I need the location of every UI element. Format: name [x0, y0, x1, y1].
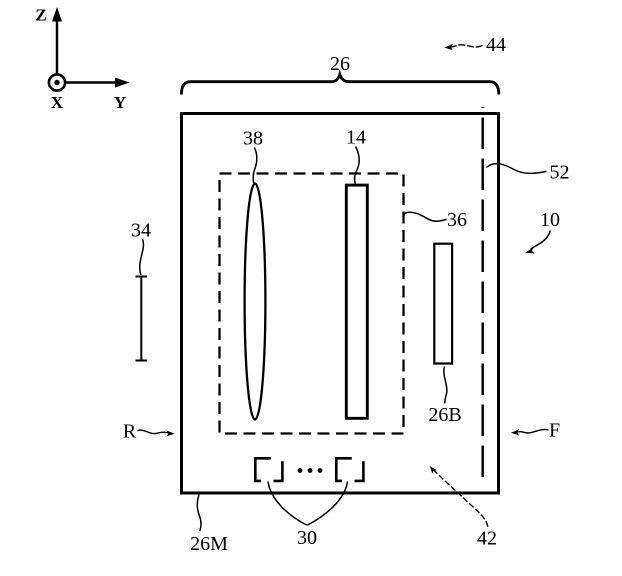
leader 30 (two branches)	[268, 482, 348, 526]
port bracket 30 (right)	[336, 458, 363, 481]
port bracket 30 (left)	[255, 458, 282, 481]
svg-text:42: 42	[477, 528, 497, 550]
svg-text:10: 10	[540, 209, 560, 231]
svg-text:26: 26	[330, 53, 350, 75]
leader 36	[403, 212, 447, 221]
axis Z arrow	[52, 7, 62, 74]
dashed region 36	[220, 174, 404, 434]
svg-text:36: 36	[447, 209, 467, 231]
component rectangle 26B	[434, 244, 452, 364]
svg-text:R: R	[123, 421, 137, 443]
dashed line 52 (display cover layer edge)	[481, 107, 484, 477]
leader 52	[487, 164, 547, 174]
svg-text:26B: 26B	[428, 404, 461, 426]
leader 26B	[444, 367, 447, 404]
leader arrow R	[138, 430, 175, 436]
leader arrow 42	[430, 466, 488, 528]
leader arrow 10	[525, 231, 550, 254]
svg-text:Y: Y	[114, 93, 126, 112]
svg-text:34: 34	[131, 220, 151, 242]
leader arrow 44	[445, 44, 483, 50]
leader 34	[140, 239, 144, 275]
svg-text:X: X	[51, 93, 64, 112]
device outline rectangle 26M	[182, 114, 499, 494]
component rectangle 14	[346, 185, 367, 418]
ellipsis dots	[298, 468, 323, 473]
svg-text:14: 14	[346, 127, 366, 149]
svg-text:26M: 26M	[190, 533, 228, 555]
svg-text:44: 44	[486, 34, 506, 56]
leader arrow F	[511, 429, 549, 435]
leader 26M	[197, 495, 201, 532]
svg-text:52: 52	[550, 162, 570, 184]
svg-text:38: 38	[243, 128, 263, 150]
axis Y arrow	[66, 78, 130, 88]
svg-text:Z: Z	[35, 6, 46, 25]
lens ellipse 38	[245, 184, 266, 420]
dimension line 34	[136, 277, 148, 361]
svg-text:30: 30	[297, 527, 317, 549]
leader 38	[253, 148, 257, 184]
axis origin symbol X (circle with dot)	[49, 74, 65, 90]
brace over device width	[181, 74, 498, 94]
svg-text:F: F	[549, 420, 560, 442]
leader 14	[355, 147, 360, 185]
